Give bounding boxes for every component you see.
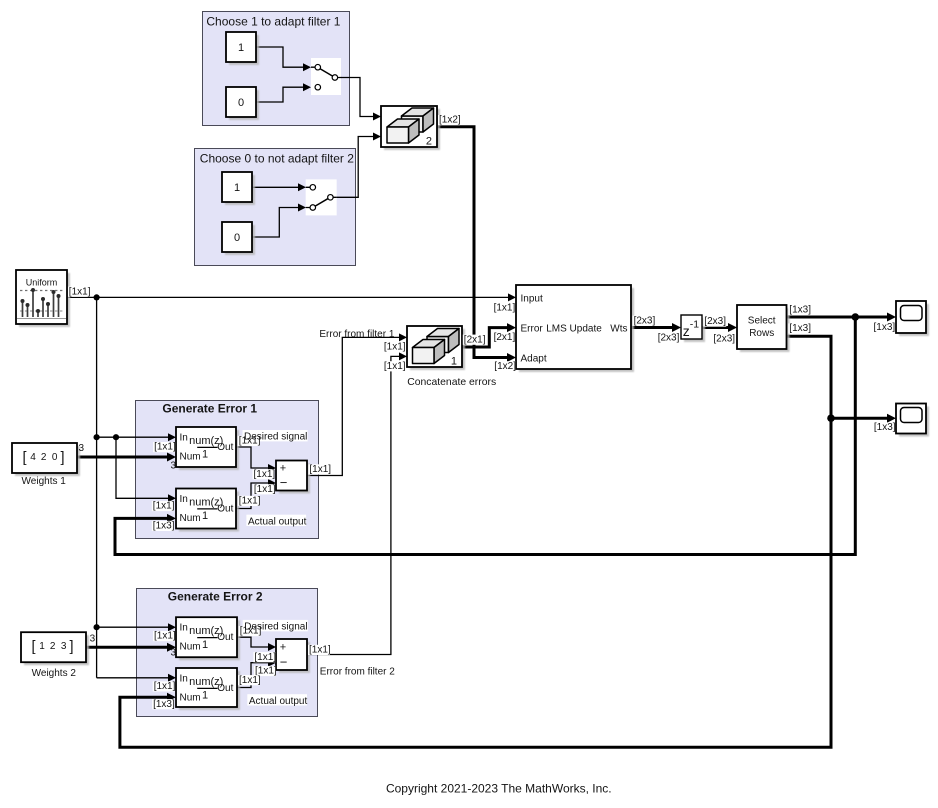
- svg-text:Error: Error: [521, 323, 544, 334]
- svg-text:3: 3: [171, 647, 177, 658]
- svg-text:2: 2: [41, 452, 47, 463]
- svg-text:+: +: [280, 463, 286, 475]
- label [1x1] near LMS Input: [493, 303, 516, 314]
- label [1x1] at sum1 out: [308, 464, 331, 475]
- svg-text:[1x3]: [1x3]: [153, 520, 175, 531]
- svg-text:[1x1]: [1x1]: [239, 675, 261, 686]
- svg-text:]: ]: [61, 450, 65, 466]
- wire Constant 1b to Switch2 in1: [252, 183, 306, 191]
- svg-text:Adapt: Adapt: [521, 353, 547, 364]
- svg-text:In: In: [180, 623, 188, 634]
- wire Sum1 to Concatenate errors in1 (Error from filter 1): [307, 333, 407, 475]
- svg-text:Generate Error 2: Generate Error 2: [168, 589, 263, 603]
- svg-text:[1x1]: [1x1]: [254, 484, 276, 495]
- wire LMS Wts to Unit Delay [2x3]: [631, 323, 681, 332]
- svg-text:In: In: [180, 432, 188, 443]
- label [1x3] before scope2: [873, 422, 896, 433]
- wire TF1b Out to Sum2 plus: [237, 637, 276, 651]
- svg-text:Concatenate errors: Concatenate errors: [407, 377, 496, 388]
- svg-text:[1x1]: [1x1]: [254, 469, 276, 480]
- constant C2 value 0: [226, 87, 259, 120]
- svg-text:[1x1]: [1x1]: [239, 496, 261, 507]
- svg-text:[1x1]: [1x1]: [154, 681, 176, 692]
- svg-text:Num: Num: [180, 692, 201, 703]
- uniform random number source: [16, 270, 70, 327]
- label [2x3] at LMS Wts out: [633, 315, 656, 326]
- svg-text:1: 1: [202, 510, 208, 522]
- label [2x3] before unit delay: [657, 333, 680, 344]
- svg-text:1: 1: [451, 356, 457, 368]
- wire Select Rows out2 down [1x3]: [120, 336, 831, 747]
- label [1x1] above sum2 minus: [253, 652, 276, 663]
- label [2x1] at concat errors out: [463, 334, 486, 345]
- svg-text:Choose 1 to adapt filter 1: Choose 1 to adapt filter 1: [206, 14, 340, 28]
- svg-text:Input: Input: [521, 293, 543, 304]
- svg-text:1: 1: [202, 690, 208, 702]
- scope 2: [896, 404, 929, 437]
- label [1x2] at concatenate2 out: [438, 115, 461, 126]
- svg-text:-1: -1: [690, 319, 699, 331]
- label [1x1] at sum2 out: [308, 645, 331, 656]
- svg-text:[1x1]: [1x1]: [69, 286, 91, 297]
- concatenate errors block (port 1): [407, 326, 465, 370]
- label [1x1] at TF1a In: [153, 442, 176, 453]
- label [1x3] at TF2a Num: [152, 520, 175, 531]
- concatenate block top (port 2): [381, 106, 440, 150]
- manual switch SW1: [311, 58, 341, 95]
- svg-text:2: 2: [50, 641, 56, 652]
- label [1x3] before scope1: [873, 322, 896, 333]
- svg-text:num(z): num(z): [189, 496, 223, 508]
- svg-text:[1x1]: [1x1]: [154, 442, 176, 453]
- transfer fcn TF1b: [176, 617, 240, 660]
- wire branch to TF1b In: [97, 623, 176, 631]
- wire junction to Scope2 [1x3]: [831, 414, 896, 423]
- svg-text:num(z): num(z): [189, 625, 223, 637]
- wire Uniform branch vertical: [96, 297, 98, 677]
- svg-text:Error from filter 2: Error from filter 2: [320, 666, 395, 677]
- svg-text:[: [: [23, 450, 27, 466]
- label [1x1] at TF1a Out: [238, 436, 261, 447]
- wire Uniform to LMS Input [1x1]: [67, 293, 516, 301]
- label [2x3] after unit delay: [703, 316, 726, 327]
- wire branch to TF2b In: [97, 674, 176, 682]
- scope 1: [896, 301, 929, 336]
- annotation backgrounds: [243, 430, 308, 441]
- label [1x1] at TF2b Out: [238, 675, 261, 686]
- svg-text:[1x1]: [1x1]: [254, 652, 276, 663]
- svg-text:num(z): num(z): [189, 435, 223, 447]
- svg-text:Error from filter 1: Error from filter 1: [319, 329, 394, 340]
- weights 1 constant: [12, 443, 80, 476]
- svg-text:In: In: [180, 494, 188, 505]
- svg-text:1: 1: [234, 182, 240, 194]
- svg-text:z: z: [683, 323, 690, 339]
- svg-text:[1x3]: [1x3]: [789, 323, 811, 334]
- svg-text:0: 0: [234, 232, 240, 244]
- svg-text:[1x3]: [1x3]: [874, 322, 896, 333]
- wire Weights2 to TF1b Num: [86, 643, 176, 652]
- weights 2 constant: [21, 632, 89, 665]
- svg-text:0: 0: [52, 452, 58, 463]
- svg-text:LMS Update: LMS Update: [546, 323, 602, 334]
- svg-text:In: In: [180, 673, 188, 684]
- svg-text:Select: Select: [748, 316, 776, 327]
- svg-text:+: +: [280, 642, 286, 654]
- svg-text:3: 3: [79, 443, 85, 454]
- area Generate Error 1: [136, 401, 319, 539]
- area Generate Error 2: [137, 589, 318, 717]
- svg-text:Actual output: Actual output: [249, 696, 308, 707]
- svg-text:[2x3]: [2x3]: [704, 316, 726, 327]
- sum block Sum1: [276, 461, 310, 494]
- LMS Update subsystem U1: [516, 285, 634, 372]
- svg-text:Copyright 2021-2023 The MathWo: Copyright 2021-2023 The MathWorks, Inc.: [386, 781, 612, 795]
- select rows subsystem: [737, 305, 790, 352]
- transfer fcn TF2b: [176, 668, 240, 710]
- label [1x1] at TF1b In: [153, 631, 176, 642]
- svg-text:1: 1: [202, 639, 208, 651]
- wire Select Rows out1 to Scope1 [1x3]: [787, 313, 896, 322]
- constant C4 value 0: [222, 222, 255, 255]
- svg-text:Num: Num: [180, 642, 201, 653]
- svg-text:[1x2]: [1x2]: [439, 115, 461, 126]
- transfer fcn TF1a: [176, 427, 239, 470]
- wire Unit Delay to Select Rows [2x3]: [702, 323, 737, 332]
- svg-text:[2x1]: [2x1]: [494, 332, 516, 343]
- label [2x1] near LMS Error: [493, 332, 516, 343]
- label [2x3] before select rows: [712, 333, 735, 344]
- svg-text:[1x3]: [1x3]: [153, 699, 175, 710]
- constant C3 value 1: [222, 172, 255, 205]
- label [1x1] at Uniform out: [68, 286, 91, 297]
- label [1x1] below sum1 minus: [253, 484, 276, 495]
- area Choose 0 to not adapt filter 2: [195, 149, 356, 266]
- svg-text:]: ]: [70, 639, 74, 655]
- area Choose 1 to adapt filter 1: [203, 12, 350, 126]
- svg-text:Num: Num: [180, 513, 201, 524]
- svg-text:[2x3]: [2x3]: [658, 333, 680, 344]
- svg-text:Desired signal: Desired signal: [244, 432, 307, 443]
- svg-text:−: −: [280, 654, 288, 669]
- svg-text:[1x1]: [1x1]: [384, 361, 406, 372]
- svg-text:Uniform: Uniform: [26, 278, 58, 288]
- svg-text:1: 1: [202, 449, 208, 461]
- svg-text:3: 3: [61, 641, 67, 652]
- svg-text:Desired signal: Desired signal: [244, 622, 307, 633]
- transfer fcn TF2a: [176, 489, 239, 532]
- wire Sum2 to Concatenate errors in2 (Error from filter 2): [307, 352, 407, 654]
- svg-text:Rows: Rows: [749, 328, 774, 339]
- label [1x1] above sum1 minus: [253, 469, 276, 480]
- svg-text:1: 1: [238, 42, 244, 54]
- svg-text:[1x1]: [1x1]: [309, 645, 331, 656]
- svg-text:2: 2: [426, 136, 432, 148]
- svg-text:0: 0: [238, 97, 244, 109]
- sum block Sum2: [276, 639, 310, 673]
- svg-text:[1x3]: [1x3]: [874, 422, 896, 433]
- wire Concatenate2 to LMS Adapt [1x2]: [437, 127, 516, 362]
- svg-text:[1x1]: [1x1]: [309, 464, 331, 475]
- wire Weights1 to TF1a Num: [77, 453, 176, 462]
- svg-text:1: 1: [39, 641, 45, 652]
- svg-text:Actual output: Actual output: [248, 516, 307, 527]
- svg-text:Wts: Wts: [610, 323, 627, 334]
- svg-text:Weights 2: Weights 2: [32, 668, 77, 679]
- svg-text:−: −: [280, 475, 288, 490]
- arrow into TF2b Num: [167, 693, 176, 702]
- label [1x1] at TF2a Out: [238, 496, 261, 507]
- wire Constant 1 to Switch1 in1: [256, 47, 311, 71]
- svg-text:[1x1]: [1x1]: [154, 631, 176, 642]
- svg-text:[2x3]: [2x3]: [634, 315, 656, 326]
- wire TF1a Out to Sum1 plus: [236, 447, 276, 472]
- wire Switch2 to Concatenate2 in2: [337, 133, 381, 198]
- svg-text:num(z): num(z): [189, 676, 223, 688]
- svg-text:[1x1]: [1x1]: [384, 342, 406, 353]
- svg-text:[1x3]: [1x3]: [789, 305, 811, 316]
- svg-text:4: 4: [30, 452, 36, 463]
- svg-text:[1x2]: [1x2]: [494, 361, 516, 372]
- wire TF2a Out to Sum1 minus: [236, 479, 276, 509]
- wire branch to TF1a In: [97, 433, 176, 441]
- constant C1 value 1: [226, 32, 259, 65]
- svg-text:3: 3: [90, 634, 96, 645]
- label [1x1] at TF1b Out: [239, 626, 262, 637]
- svg-text:[1x1]: [1x1]: [494, 303, 516, 314]
- label [1x3] at select rows out2: [788, 323, 811, 334]
- wire Constant 0b to Switch2 in2: [252, 204, 306, 238]
- svg-text:[2x1]: [2x1]: [464, 334, 486, 345]
- wire TF2b Out to Sum2 minus: [237, 659, 276, 688]
- wire Concatenate errors to LMS Error [2x1]: [462, 323, 516, 347]
- svg-text:Choose 0 to not adapt filter 2: Choose 0 to not adapt filter 2: [200, 152, 354, 166]
- svg-text:3: 3: [171, 460, 177, 471]
- wire Constant 0 to Switch1 in2: [256, 83, 311, 102]
- label [1x1] at TF2a In: [152, 501, 175, 512]
- manual switch SW2: [306, 179, 337, 215]
- svg-text:Num: Num: [180, 451, 201, 462]
- svg-text:Generate Error 1: Generate Error 1: [162, 402, 257, 416]
- label [1x3] at TF2b Num: [152, 699, 175, 710]
- label [1x1] at concat errors in2: [383, 361, 406, 372]
- svg-text:[: [: [32, 639, 36, 655]
- wire Switch1 to Concatenate2 in1: [338, 78, 381, 121]
- label [1x1] below sum2 minus: [254, 666, 277, 677]
- label [1x2] near LMS Adapt: [493, 361, 516, 372]
- junction dots: [94, 294, 100, 300]
- svg-text:[2x3]: [2x3]: [713, 333, 735, 344]
- svg-text:[1x1]: [1x1]: [153, 501, 175, 512]
- label [1x3] at select rows out1: [788, 305, 811, 316]
- wire feedback1 to TF2a Num [1x3]: [115, 317, 855, 555]
- unit delay z-1: [681, 315, 705, 342]
- label [1x1] at TF2b In: [153, 681, 176, 692]
- wire branch to TF2a In: [116, 437, 176, 502]
- label [1x1] at concat errors in1: [383, 342, 406, 353]
- svg-text:Weights 1: Weights 1: [22, 476, 67, 487]
